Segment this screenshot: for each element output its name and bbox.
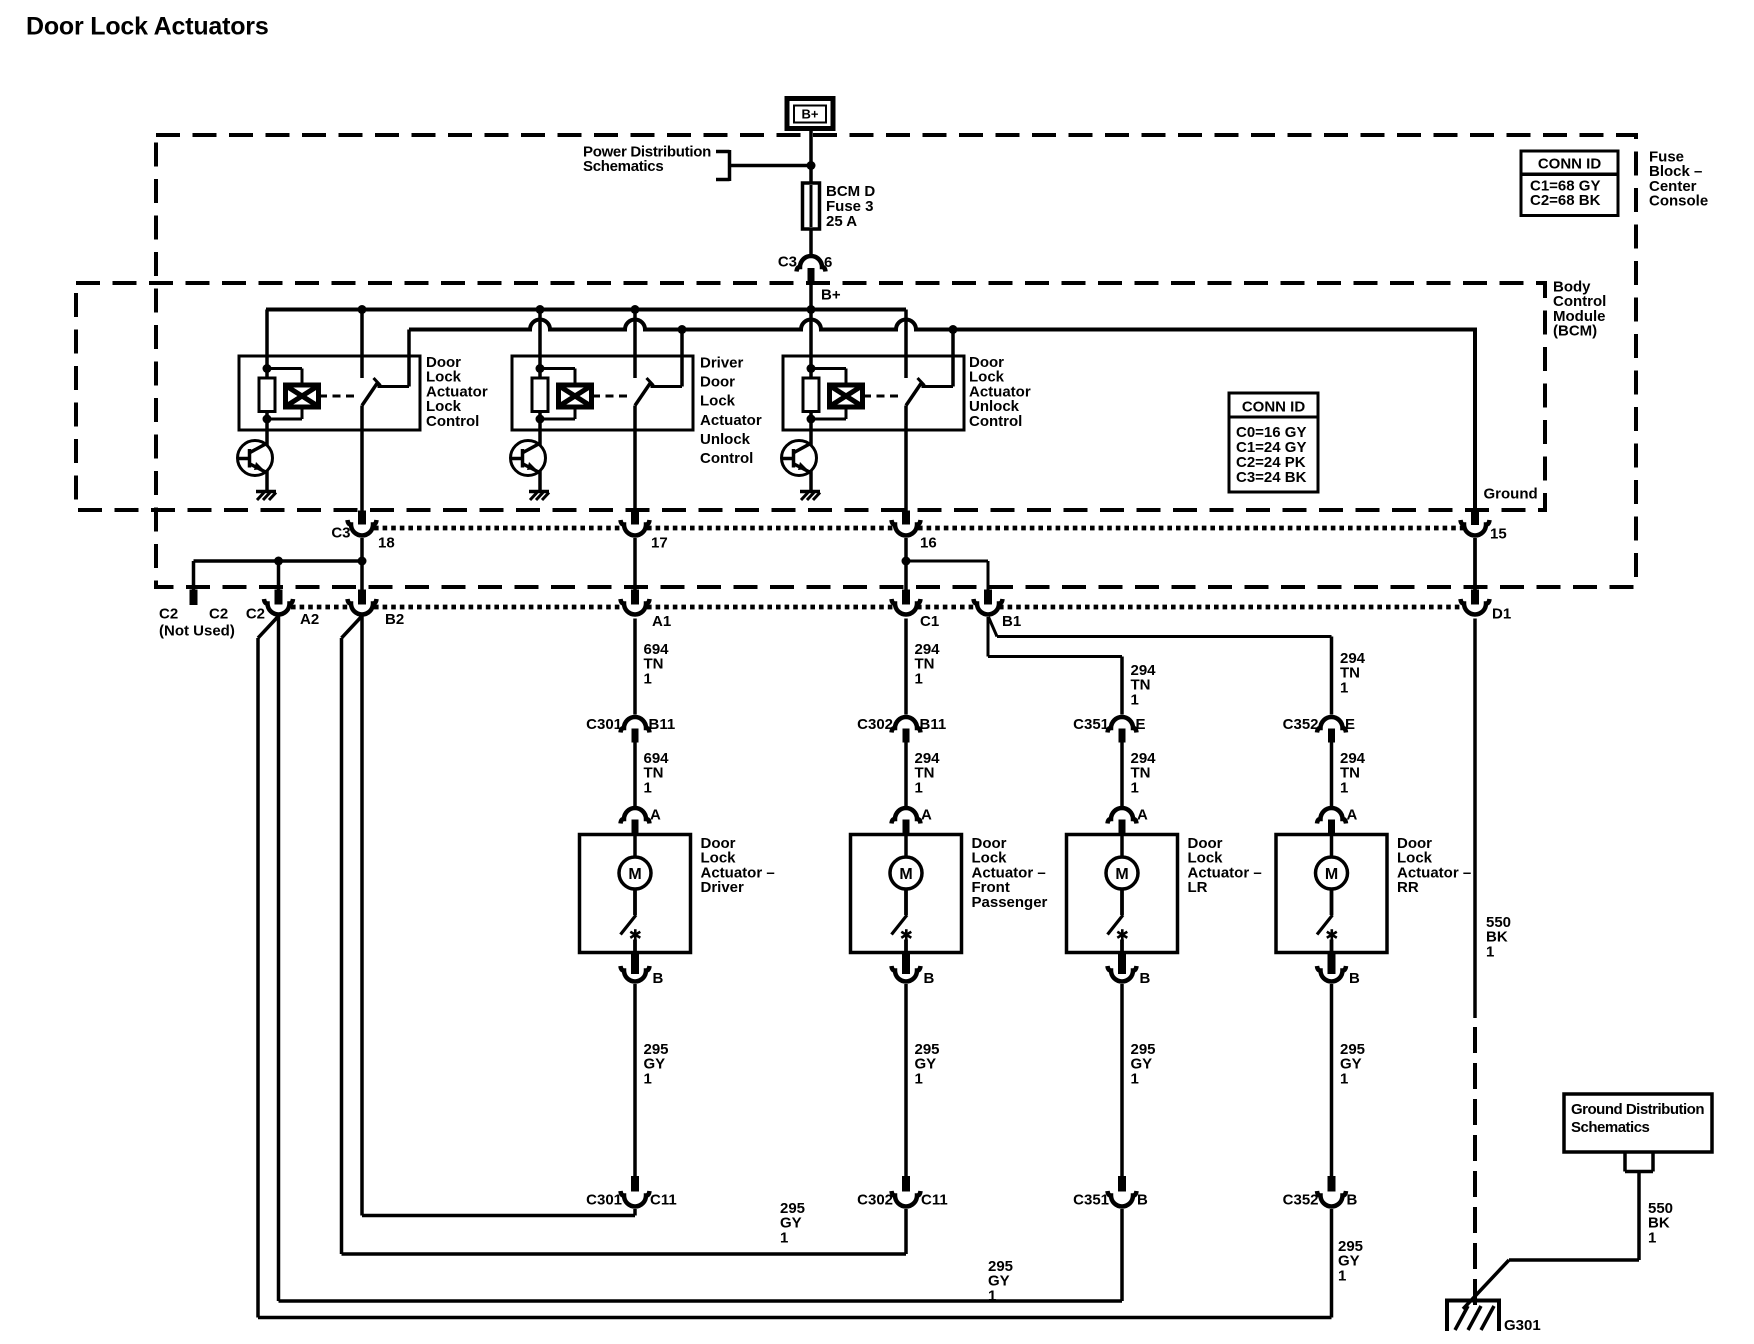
svg-text:M: M [1115,866,1128,883]
svg-text:Actuator: Actuator [700,412,762,429]
svg-text:Door: Door [700,374,735,391]
svg-text:E: E [1345,716,1355,733]
svg-text:1: 1 [915,779,923,796]
svg-text:LR: LR [1188,879,1208,896]
svg-text:1: 1 [644,779,652,796]
svg-text:C3=24 BK: C3=24 BK [1236,469,1307,486]
svg-text:C301: C301 [586,1192,622,1209]
svg-text:C3: C3 [778,254,797,271]
svg-text:B: B [1137,1192,1148,1209]
svg-text:B: B [1347,1192,1358,1209]
svg-text:1: 1 [988,1287,996,1304]
svg-text:C302: C302 [857,716,893,733]
svg-text:C351: C351 [1073,1192,1109,1209]
svg-text:Door Lock Actuators: Door Lock Actuators [26,13,269,41]
svg-text:1: 1 [1340,679,1348,696]
svg-text:A: A [1137,807,1148,824]
svg-text:1: 1 [1131,779,1139,796]
svg-text:1: 1 [1131,691,1139,708]
svg-text:C3: C3 [331,525,350,542]
svg-text:C2: C2 [159,606,178,623]
svg-text:Driver: Driver [700,355,744,372]
svg-text:B+: B+ [821,287,841,304]
svg-text:1: 1 [1486,943,1494,960]
svg-text:A: A [921,807,932,824]
svg-text:B2: B2 [385,611,404,628]
svg-text:C2: C2 [209,606,228,623]
svg-text:D1: D1 [1492,606,1511,623]
svg-text:Control: Control [969,413,1022,430]
svg-text:Control: Control [426,413,479,430]
svg-text:1: 1 [644,1070,652,1087]
svg-text:B11: B11 [649,716,676,733]
svg-text:1: 1 [780,1229,788,1246]
svg-text:1: 1 [1340,1070,1348,1087]
svg-text:CONN ID: CONN ID [1538,156,1602,173]
svg-text:1: 1 [644,670,652,687]
svg-text:(Not Used): (Not Used) [159,623,235,640]
svg-text:B11: B11 [920,716,947,733]
svg-text:M: M [899,866,912,883]
svg-text:1: 1 [1648,1229,1656,1246]
svg-text:1: 1 [915,1070,923,1087]
svg-text:G301: G301 [1504,1317,1541,1334]
svg-text:B1: B1 [1002,613,1021,630]
svg-text:18: 18 [378,535,395,552]
svg-text:B: B [924,970,935,987]
svg-text:Console: Console [1649,193,1708,210]
svg-text:1: 1 [915,670,923,687]
svg-text:Ground: Ground [1484,486,1538,503]
svg-text:B: B [653,970,664,987]
svg-text:C351: C351 [1073,716,1109,733]
svg-text:M: M [1325,866,1338,883]
svg-text:A: A [1347,807,1358,824]
svg-text:1: 1 [1340,779,1348,796]
svg-text:25 A: 25 A [826,213,857,230]
svg-text:Lock: Lock [700,393,736,410]
svg-text:B+: B+ [802,107,819,122]
svg-text:1: 1 [1131,1070,1139,1087]
svg-text:Control: Control [700,450,753,467]
svg-text:C301: C301 [586,716,622,733]
svg-text:C2=68 BK: C2=68 BK [1530,192,1601,209]
svg-text:(BCM): (BCM) [1553,323,1597,340]
svg-text:Passenger: Passenger [972,894,1048,911]
svg-text:E: E [1136,716,1146,733]
svg-text:A1: A1 [652,613,671,630]
svg-text:A2: A2 [300,611,319,628]
svg-text:Unlock: Unlock [700,431,751,448]
svg-text:15: 15 [1490,526,1507,543]
svg-text:C352: C352 [1283,1192,1319,1209]
svg-text:C352: C352 [1283,716,1319,733]
svg-text:Driver: Driver [701,879,745,896]
svg-text:B: B [1140,970,1151,987]
svg-text:Schematics: Schematics [583,158,663,175]
svg-text:16: 16 [920,535,937,552]
svg-text:M: M [628,866,641,883]
svg-text:C11: C11 [650,1192,677,1209]
svg-text:B: B [1349,970,1360,987]
svg-text:RR: RR [1397,879,1419,896]
svg-text:C2: C2 [246,606,265,623]
svg-text:1: 1 [1338,1267,1346,1284]
svg-text:C302: C302 [857,1192,893,1209]
svg-text:A: A [650,807,661,824]
svg-text:CONN ID: CONN ID [1242,399,1306,416]
svg-text:17: 17 [651,535,668,552]
svg-text:6: 6 [824,254,832,271]
svg-text:Ground Distribution: Ground Distribution [1571,1101,1704,1118]
svg-text:C11: C11 [921,1192,948,1209]
svg-text:Schematics: Schematics [1571,1119,1650,1136]
svg-text:C1: C1 [920,613,939,630]
